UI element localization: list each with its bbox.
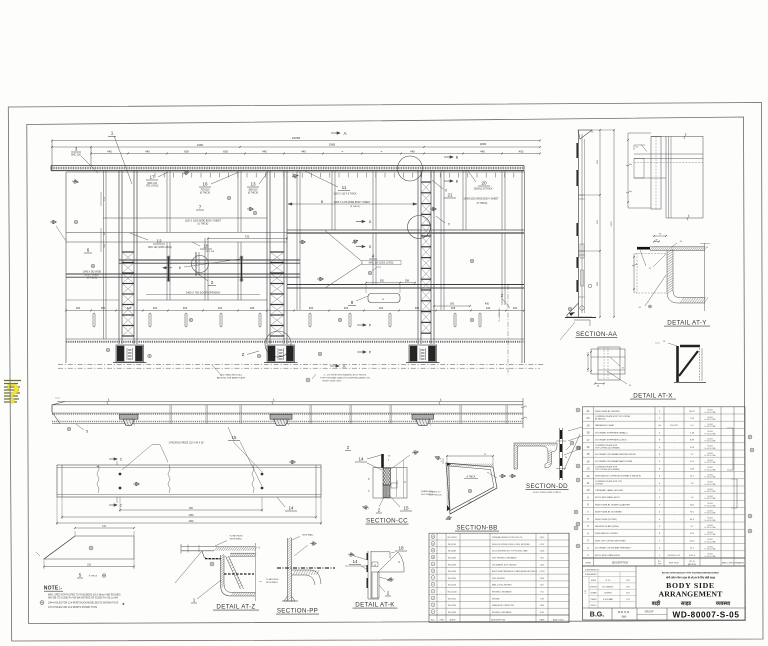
svg-text:SECTION-BB: SECTION-BB	[456, 525, 497, 532]
crosshatch block upper	[369, 468, 404, 485]
svg-text:1/93: 1/93	[626, 599, 629, 601]
misc weld symbols	[182, 170, 189, 176]
svg-text:IS:2062: IS:2062	[707, 518, 713, 520]
horizontals	[634, 153, 703, 155]
detail at-Y lower	[632, 234, 710, 327]
arrows P	[357, 324, 366, 326]
svg-text:6: 6	[432, 584, 433, 586]
svg-text:IS:2062: IS:2062	[707, 532, 713, 534]
misc circled marks	[574, 510, 578, 514]
svg-text:IS:2062: IS:2062	[707, 467, 713, 469]
svg-text:✚: ✚	[122, 602, 125, 606]
svg-text:1945X1500 WIDE BODY SHEET: 1945X1500 WIDE BODY SHEET	[463, 198, 499, 201]
svg-text:(5 THICK): (5 THICK)	[477, 202, 488, 205]
svg-text:6MC 100: 6MC 100	[71, 153, 81, 156]
svg-text:WD-06080: WD-06080	[448, 551, 456, 553]
svg-text:WD-07042: WD-07042	[448, 544, 456, 546]
stanchion S1	[103, 171, 105, 339]
svg-text:FOR PYROMAX LABLE HOLDER REQUI: FOR PYROMAX LABLE HOLDER REQUIRED ON	[320, 377, 370, 380]
svg-text:SIDE TOP COPING WITH RIBS: SIDE TOP COPING WITH RIBS	[595, 540, 626, 542]
detail at-Z	[175, 536, 261, 611]
svg-text:REVISED: REVISED	[492, 598, 501, 600]
bolts	[119, 473, 122, 476]
svg-text:1985: 1985	[329, 143, 336, 147]
svg-text:101.5: 101.5	[689, 540, 695, 542]
svg-text:14: 14	[358, 456, 364, 461]
black top bar	[381, 454, 384, 468]
svg-text:12: 12	[432, 543, 434, 545]
svg-text:445: 445	[145, 149, 150, 153]
svg-text:HUCK/ANSEL BOLTS ADDED: HUCK/ANSEL BOLTS ADDED	[492, 563, 517, 566]
svg-text:1945 X 562 WIDE: 1945 X 562 WIDE	[83, 272, 102, 274]
small side box	[391, 483, 397, 488]
stiffener x463	[462, 171, 464, 230]
svg-text:COVERING PLATE FOR TOP: COVERING PLATE FOR TOP	[595, 480, 622, 483]
svg-text:5: 5	[86, 430, 88, 434]
svg-text:2176: 2176	[611, 221, 613, 227]
svg-text:11: 11	[342, 185, 347, 190]
svg-text:700X110: 700X110	[200, 190, 210, 192]
svg-text:21: 21	[447, 193, 453, 198]
svg-text:13: 13	[432, 537, 434, 539]
svg-text:730: 730	[245, 234, 250, 238]
svg-text:17# # HOLES FOR 16 # RIVETS SH: 17# # HOLES FOR 16 # RIVETS SHOWN THUS	[48, 607, 97, 609]
svg-text:1505 X 110 X 6 THICK: 1505 X 110 X 6 THICK	[333, 194, 357, 196]
base	[567, 303, 592, 317]
svg-text:TO BE FILED: TO BE FILED	[229, 536, 243, 538]
svg-text:B.G.: B.G.	[590, 611, 604, 618]
svg-text:328: 328	[451, 306, 456, 310]
bottom flange chain lines	[58, 364, 545, 366]
svg-text:SIDE MIDDLE COPING: SIDE MIDDLE COPING	[595, 533, 618, 535]
rail y218	[103, 217, 267, 219]
svg-text:18: 18	[203, 244, 209, 249]
svg-text:IS:2062: IS:2062	[707, 496, 713, 498]
svg-text:IS:2062: IS:2062	[707, 482, 713, 484]
svg-text:1945 X 1478 WIDE BODY SHEET: 1945 X 1478 WIDE BODY SHEET	[334, 201, 371, 204]
svg-text:WIDLE DOORS BLOCKED & DRG. MOD: WIDLE DOORS BLOCKED & DRG. MODIFIED	[492, 544, 531, 546]
svg-text:DETAIL AT-Y: DETAIL AT-Y	[667, 320, 707, 327]
svg-text:600: 600	[184, 149, 189, 153]
svg-text:IS:2062: IS:2062	[707, 410, 713, 412]
svg-text:BODY SIDE STANCHION: BODY SIDE STANCHION	[595, 554, 620, 557]
svg-text:?: ?	[6, 379, 20, 410]
svg-text:400: 400	[485, 303, 490, 306]
svg-text:WD-02026: WD-02026	[448, 585, 456, 587]
top hatched strip	[650, 246, 705, 248]
dashed box	[635, 252, 667, 254]
svg-text:CHECKED: CHECKED	[590, 586, 599, 588]
dim 730	[208, 238, 287, 240]
svg-text:IS:2062: IS:2062	[707, 503, 713, 505]
svg-text:(8 THICK): (8 THICK)	[200, 192, 211, 194]
section DD	[514, 428, 581, 494]
svg-text:8.1/03: 8.1/03	[540, 571, 545, 573]
svg-text:16: 16	[202, 182, 208, 187]
detail at-Y upper	[626, 133, 703, 220]
svg-text:SURESH: SURESH	[604, 593, 612, 595]
strip right end	[522, 398, 524, 428]
svg-text:SUIT 6MC100: SUIT 6MC100	[429, 494, 443, 496]
svg-text:5: 5	[432, 591, 433, 593]
svg-text:8 THICK: 8 THICK	[89, 576, 98, 578]
svg-text:REVISED & REDRAWN: REVISED & REDRAWN	[492, 611, 512, 614]
svg-text:10/06: 10/06	[540, 551, 545, 553]
dim 1650/1985/1890	[52, 146, 540, 148]
svg-text:9: 9	[351, 300, 354, 305]
dark weld dashes on wall	[576, 143, 578, 158]
svg-text:445: 445	[410, 149, 415, 153]
svg-text:WD-95064: WD-95064	[448, 612, 456, 614]
stiffener x441	[440, 171, 442, 310]
stiffener x238	[237, 171, 239, 232]
svg-text:ALT.: ALT.	[431, 618, 435, 621]
svg-text:(8 THICK): (8 THICK)	[350, 206, 360, 208]
svg-text:TOP COPING (DOORWAY): TOP COPING (DOORWAY)	[595, 468, 620, 471]
svg-text:SIDE PLATE AT CENTRE: SIDE PLATE AT CENTRE	[595, 410, 620, 413]
section arrow A top	[331, 132, 340, 134]
right waist rail	[287, 229, 524, 231]
svg-text:190: 190	[450, 303, 455, 306]
svg-text:SIDE PLATE AT DUMMY QUARTER: SIDE PLATE AT DUMMY QUARTER	[595, 503, 630, 506]
svg-text:'PERSHAD' ADDED IN TITLE BLOCK: 'PERSHAD' ADDED IN TITLE BLOCK	[492, 536, 523, 539]
svg-text:IS:2062: IS:2062	[707, 525, 713, 527]
svg-text:SHARED TO: SHARED TO	[429, 490, 441, 493]
plan labels	[67, 427, 71, 431]
dim 445 segments	[91, 153, 540, 155]
svg-text:SIDE PLATE AT DOORWAY: SIDE PLATE AT DOORWAY	[595, 511, 622, 514]
dim verticals	[599, 130, 601, 317]
svg-text:14: 14	[288, 506, 294, 511]
svg-text:454: 454	[183, 306, 188, 310]
section PP	[259, 533, 335, 614]
svg-text:WD-012444: WD-012444	[447, 592, 456, 594]
callout circle foot	[265, 331, 291, 357]
svg-text:IS:2062: IS:2062	[707, 539, 713, 541]
floor chain line	[277, 567, 335, 569]
svg-text:D: D	[369, 245, 372, 249]
svg-text:2: 2	[211, 280, 214, 285]
svg-text:COVERING PLATE FOR: COVERING PLATE FOR	[595, 444, 618, 447]
svg-text:(702 LONG): (702 LONG)	[146, 186, 159, 188]
svg-text:4: 4	[432, 598, 433, 600]
svg-text:WD-05026: WD-05026	[448, 571, 456, 573]
svg-text:ISS.NO: ISS.NO	[591, 605, 597, 607]
stanchion x297	[296, 171, 298, 310]
section AA	[560, 129, 618, 340]
svg-text:WD-80007-S-11: WD-80007-S-11	[668, 555, 681, 557]
gusset plate item 5	[36, 526, 135, 578]
table header row	[583, 558, 746, 566]
svg-text:8: 8	[432, 571, 433, 573]
svg-text:MATL & DRG. REVISED: MATL & DRG. REVISED	[492, 584, 512, 587]
top coping rail	[51, 165, 524, 167]
wall foot	[284, 596, 295, 601]
svg-text:520: 520	[309, 306, 314, 310]
svg-text:REF. DRG.: REF. DRG.	[669, 562, 679, 564]
svg-text:12: 12	[156, 239, 162, 244]
svg-text:SUPERSEDED BY: SUPERSEDED BY	[585, 569, 600, 571]
svg-text:SIDE MIDDLE COPING(DOORWAY & M: SIDE MIDDLE COPING(DOORWAY & MIDDLE)	[595, 475, 641, 478]
base plate feet	[116, 345, 144, 362]
svg-text:DOORWAY CROSS BAR PRESSING: DOORWAY CROSS BAR PRESSING	[595, 547, 631, 550]
svg-text:COVERING PLATE FOR: COVERING PLATE FOR	[595, 465, 618, 468]
svg-text:10: 10	[432, 557, 434, 559]
dims right of door C	[434, 305, 470, 307]
waist line	[66, 232, 524, 234]
svg-text:ADDITIONAL TARPAULIN CLEATS AD: ADDITIONAL TARPAULIN CLEATS ADDED AS ITE…	[492, 570, 537, 573]
svg-text:TO BE FILED: TO BE FILED	[266, 579, 279, 581]
svg-text:8 THICK: 8 THICK	[467, 477, 476, 479]
svg-text:2mm SEAL WELD ALL: 2mm SEAL WELD ALL	[220, 374, 243, 377]
svg-text:SECTION-CC: SECTION-CC	[366, 518, 408, 525]
vertical plate	[651, 137, 661, 210]
svg-text:WD-99042: WD-99042	[448, 598, 456, 600]
svg-text:1550X113 8THICK: 1550X113 8THICK	[473, 189, 493, 191]
svg-text:114.57: 114.57	[689, 411, 696, 413]
right edge	[702, 136, 704, 218]
svg-text:बोगी ओपन वैगन टाइप बी.ओ.एन के: बोगी ओपन वैगन टाइप बी.ओ.एन के लिए बॉडी स…	[665, 575, 716, 579]
svg-text:445: 445	[301, 149, 306, 153]
weld symbols right	[499, 474, 506, 478]
svg-text:IS:2062: IS:2062	[707, 424, 713, 426]
svg-text:DETAIL AT-Z: DETAIL AT-Z	[216, 604, 255, 611]
svg-text:452: 452	[344, 306, 349, 310]
svg-text:DETAIL AT-X: DETAIL AT-X	[633, 393, 673, 400]
svg-text:SIDE WALL: SIDE WALL	[302, 533, 314, 536]
svg-text:REVISED & REDRAWN: REVISED & REDRAWN	[492, 591, 512, 594]
svg-text:9: 9	[432, 564, 433, 566]
svg-text:8/92: 8/92	[626, 580, 629, 582]
svg-text:IS:2062: IS:2062	[707, 460, 713, 462]
strip left end	[52, 402, 65, 424]
svg-text:D: D	[369, 220, 372, 224]
svg-text:13: 13	[250, 182, 256, 187]
corner welds	[447, 505, 450, 511]
svg-text:TOP COPING (DOORWAY): TOP COPING (DOORWAY)	[595, 446, 620, 449]
svg-text:IS:2062: IS:2062	[707, 453, 713, 455]
leaders and cplus	[570, 441, 574, 445]
svg-text:DOORWAY CROSSBAR PACKING PIECE: DOORWAY CROSSBAR PACKING PIECE	[595, 453, 636, 456]
svg-text:1: 1	[111, 131, 114, 136]
revision table	[429, 533, 569, 622]
corner leader texts	[434, 455, 441, 461]
svg-text:452: 452	[218, 306, 223, 310]
svg-text:3 - 13# RIVET/HUCK/ANSEL BOLT: 3 - 13# RIVET/HUCK/ANSEL BOLT HOLES	[324, 374, 367, 377]
door mid stiffener	[204, 238, 206, 300]
svg-text:ARRANGEMENT: ARRANGEMENT	[659, 590, 724, 599]
svg-text:ITEM: ITEM	[439, 619, 444, 621]
svg-text:DRG. REVISED: DRG. REVISED	[492, 578, 506, 580]
svg-text:IS:2062: IS:2062	[707, 546, 713, 548]
rivet ticks under coping	[154, 173, 156, 178]
outline	[373, 468, 407, 499]
svg-text:11: 11	[432, 550, 434, 552]
svg-text:IS:2062: IS:2062	[707, 474, 713, 476]
stiffener x167	[166, 171, 168, 232]
svg-text:AROUND THE BASE PLATE: AROUND THE BASE PLATE	[217, 377, 246, 380]
second verticals	[665, 137, 667, 219]
svg-text:MATL SPEC FOR PLATES TO THICKN: MATL SPEC FOR PLATES TO THICKNESS 6,8 & …	[48, 593, 121, 596]
svg-text:C of WAGON: C of WAGON	[498, 308, 501, 321]
svg-text:452: 452	[415, 306, 420, 310]
svg-text:C: C	[120, 458, 123, 462]
main elevation: body side left half	[50, 131, 545, 383]
svg-text:18: 18	[398, 546, 404, 551]
svg-text:3/06: 3/06	[540, 557, 544, 559]
svg-text:RIGHT SIDE ONLY: RIGHT SIDE ONLY	[323, 381, 342, 383]
svg-text:7: 7	[199, 205, 202, 210]
svg-text:2 PACKING PIECE 122 X 40 X 28: 2 PACKING PIECE 122 X 40 X 28	[169, 442, 205, 445]
svg-text:साइड: साइड	[680, 601, 691, 607]
svg-text:17: 17	[149, 175, 155, 180]
svg-text:SECTION-PP: SECTION-PP	[277, 608, 318, 615]
svg-text:15: 15	[403, 506, 409, 511]
svg-text:व्यवस्था: व्यवस्था	[715, 601, 731, 607]
svg-text:550: 550	[380, 279, 385, 282]
svg-text:4: 4	[372, 254, 375, 259]
callout circle mid	[408, 216, 431, 239]
svg-text:400: 400	[513, 306, 518, 310]
svg-text:SIDE PLATE (OUTER): SIDE PLATE (OUTER)	[595, 518, 617, 521]
svg-text:DOORWAY STIFFENER (LONG): DOORWAY STIFFENER (LONG)	[595, 439, 627, 442]
svg-text:DOORWAY STIFFENER (SMALL): DOORWAY STIFFENER (SMALL)	[595, 431, 628, 434]
side middle coping plate detail	[56, 442, 322, 526]
svg-text:1890: 1890	[480, 142, 487, 146]
section CC	[345, 445, 435, 525]
svg-text:328: 328	[250, 306, 255, 310]
outline quadrilateral	[446, 463, 497, 514]
parts list table	[568, 407, 754, 558]
svg-text:8/92: 8/92	[626, 593, 629, 595]
svg-text:IS:2062: IS:2062	[707, 417, 713, 419]
panel right edge	[521, 171, 523, 363]
note block	[40, 586, 125, 609]
svg-text:WD-80007-S-05: WD-80007-S-05	[673, 610, 740, 619]
title block	[583, 566, 746, 620]
hatched top strip	[215, 547, 258, 551]
main wall	[578, 130, 580, 317]
svg-text:MAY BE TO IS:2062 Fe 410 WA IN: MAY BE TO IS:2062 Fe 410 WA INSTEAD OF I…	[48, 597, 119, 600]
callout circle top	[398, 156, 423, 181]
svg-text:1480: 1480	[188, 515, 194, 517]
svg-text:NO.13 MODIFIED BUT TOP ROUND 2: NO.13 MODIFIED BUT TOP ROUND 2 BAR	[492, 550, 528, 553]
strip break marks	[107, 399, 109, 405]
signature stamp	[4, 379, 21, 410]
stiffener x332	[331, 171, 333, 230]
svg-text:13# # HOLES FOR 12 # RIVET/HUC: 13# # HOLES FOR 12 # RIVET/HUCK/ANSEL BO…	[48, 601, 119, 604]
svg-text:(5 THICK): (5 THICK)	[198, 223, 209, 226]
svg-text:11/96: 11/96	[540, 605, 544, 607]
svg-text:2: 2	[432, 611, 433, 613]
svg-text:Z: Z	[242, 352, 245, 357]
svg-text:14: 14	[352, 559, 358, 564]
arrow A bottom	[330, 365, 339, 367]
svg-text:1460 X 750 DOOR OPENING: 1460 X 750 DOOR OPENING	[186, 291, 220, 295]
bottom diagonal double	[450, 487, 497, 514]
svg-text:S.S.KUMAR: S.S.KUMAR	[603, 598, 614, 601]
svg-text:445: 445	[107, 149, 112, 153]
dims below	[120, 509, 262, 511]
cleat pads on strip	[120, 414, 139, 419]
body sheet panel outline	[65, 172, 67, 363]
svg-text:3: 3	[75, 147, 78, 152]
svg-text:2: 2	[387, 591, 390, 596]
arrows D	[356, 220, 365, 222]
svg-text:WD-05098: WD-05098	[448, 564, 456, 566]
bolt pair door A-B	[168, 257, 170, 282]
svg-text:6/02: 6/02	[540, 585, 544, 587]
svg-text:6MC 100 (1505 LONG): 6MC 100 (1505 LONG)	[369, 262, 394, 265]
door cross bar 2	[66, 273, 300, 275]
crosshatch block lower (denser)	[372, 485, 400, 498]
svg-text:IS:2062: IS:2062	[707, 446, 713, 448]
svg-text:300: 300	[76, 306, 81, 310]
svg-text:TARPAULIN CLEAT: TARPAULIN CLEAT	[595, 424, 615, 427]
svg-text:10/91: 10/91	[540, 612, 545, 614]
svg-text:(5 THICK): (5 THICK)	[87, 278, 98, 280]
door post B	[266, 171, 268, 344]
svg-text:1: 1	[193, 598, 196, 603]
svg-text:8/92: 8/92	[626, 586, 629, 588]
svg-text:IS:2062: IS:2062	[707, 554, 713, 556]
hand hold box	[368, 294, 400, 303]
svg-text:WD-95036: WD-95036	[448, 605, 456, 607]
svg-text:DATE: DATE	[540, 618, 546, 621]
svg-text:SECTION-AA: SECTION-AA	[576, 331, 618, 338]
svg-text:IS:2062: IS:2062	[707, 438, 713, 440]
wagon centreline	[507, 285, 509, 375]
door latch circle	[192, 256, 209, 273]
svg-text:R/N-1781: R/N-1781	[670, 425, 678, 427]
svg-text:1530: 1530	[188, 521, 194, 523]
svg-text:बाड़ी: बाड़ी	[651, 600, 661, 607]
lower body strip slots	[93, 313, 95, 327]
rivet note	[306, 378, 310, 382]
svg-text:ASSLY. DRG.: ASSLY. DRG.	[553, 618, 564, 621]
svg-text:350: 350	[101, 306, 106, 310]
svg-text:M.C.PANDEY: M.C.PANDEY	[602, 585, 614, 588]
svg-text:WITH WELD: WITH WELD	[230, 539, 243, 541]
svg-text:12/05: 12/05	[540, 564, 545, 566]
svg-text:IS:2062: IS:2062	[707, 489, 713, 491]
svg-text:'PERSHAD' LABEL HOLDER: 'PERSHAD' LABEL HOLDER	[595, 489, 623, 492]
door opening bottom	[137, 299, 267, 301]
curved gusset	[292, 570, 322, 584]
detail at-X right gusset	[630, 341, 706, 400]
svg-text:MATL & SPEC REMARKS: MATL & SPEC REMARKS	[722, 561, 745, 564]
svg-text:DESCRIPTION: DESCRIPTION	[612, 561, 629, 564]
L profile top	[514, 443, 557, 469]
svg-text:3: 3	[432, 605, 433, 607]
lower rect	[372, 572, 379, 598]
svg-text:1121.6: 1121.6	[689, 555, 696, 557]
door post C	[417, 171, 419, 344]
L plate with curve	[667, 250, 705, 303]
rail y242	[66, 241, 287, 243]
svg-text:6MC 100 (1535 LONG): 6MC 100 (1535 LONG)	[148, 247, 172, 249]
svg-text:ITEM: ITEM	[585, 562, 590, 564]
strip joints	[169, 405, 171, 424]
svg-text:(8 THICK): (8 THICK)	[248, 192, 259, 194]
svg-text:WT. IN: WT. IN	[689, 561, 695, 563]
svg-text:COVERING PLATE FOR TOP COPING: COVERING PLATE FOR TOP COPING	[595, 415, 631, 418]
arrows B	[444, 156, 453, 158]
stiffener x373	[372, 171, 374, 230]
svg-text:DETAIL AT-K: DETAIL AT-K	[355, 602, 395, 609]
door cross bar 1	[119, 259, 300, 261]
svg-text:6: 6	[87, 248, 90, 253]
